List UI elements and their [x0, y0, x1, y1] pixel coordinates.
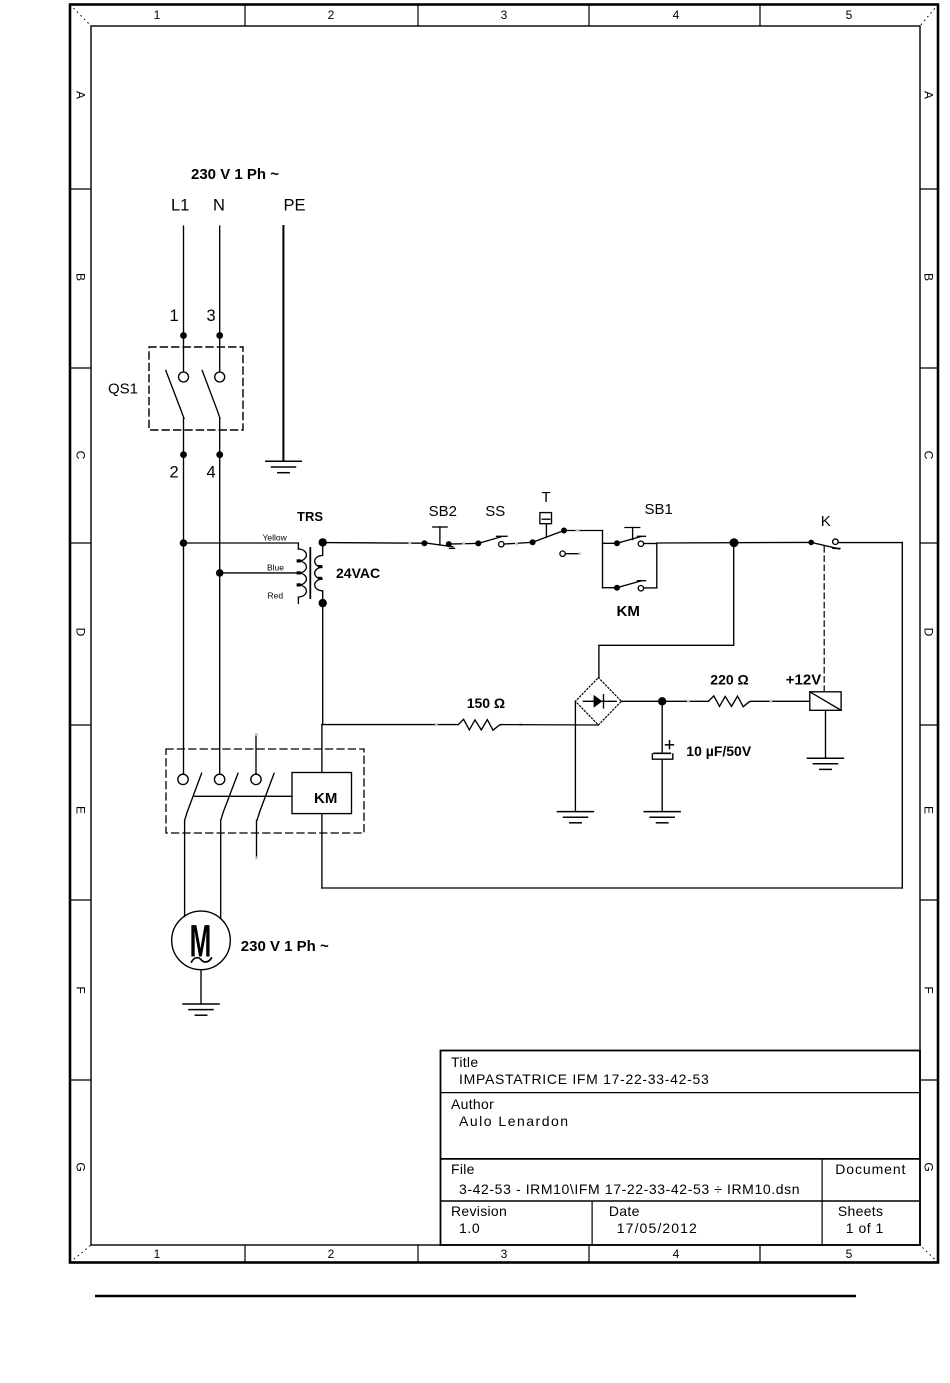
selector SS contact dot: [475, 540, 481, 546]
timer lower throw circle: [560, 551, 565, 556]
transformer TRS secondary tap marks: [318, 565, 322, 580]
terminal dot L1 pin1: [180, 332, 187, 339]
contact KM aux blade: [617, 581, 641, 588]
pin mark gray T output: [576, 529, 580, 532]
svg-text:TRS: TRS: [297, 509, 323, 524]
wire left drop to KM aux: [603, 587, 618, 589]
label Blue: [267, 563, 284, 573]
pushbutton SB1 actuator bar: [625, 527, 640, 529]
svg-text:150 Ω: 150 Ω: [467, 695, 505, 711]
pin number 2: [170, 463, 179, 481]
wire 150 ohm from junction: [322, 724, 458, 726]
junction dot secondary top: [319, 538, 327, 546]
drawing frame inner border: [91, 26, 920, 1245]
relay contact K circle: [833, 539, 839, 545]
wire K to right rail: [838, 542, 902, 544]
pin mark gray pole3 end: [255, 857, 258, 860]
contactor pole1 blade: [185, 773, 202, 820]
wire cap node down: [661, 701, 663, 753]
transformer TRS secondary winding: [315, 542, 323, 603]
dashed link K to coil: [823, 547, 825, 692]
transformer TRS label: [297, 509, 323, 524]
svg-text:Title: Title: [451, 1054, 478, 1070]
transformer TRS primary tap marks: [297, 559, 301, 586]
contactor pole3 stub: [255, 735, 257, 774]
node PE label: [284, 197, 306, 215]
svg-text:D: D: [922, 628, 936, 637]
svg-text:A: A: [74, 91, 88, 99]
frame column numbers top: [154, 8, 853, 22]
motor rating label: [241, 938, 329, 955]
frame column ticks bottom: [245, 1245, 760, 1263]
timer head inner bar: [542, 518, 550, 520]
wire PE feeder: [282, 226, 284, 461]
contactor coil KM label: [314, 790, 337, 807]
terminal dot L1 pin2: [180, 451, 187, 458]
wire L1 feeder upper: [183, 226, 185, 372]
timer lower throw stub: [565, 553, 578, 555]
motor M letter: [190, 915, 212, 967]
footer rule below frame: [95, 1295, 856, 1297]
svg-text:3: 3: [207, 307, 216, 325]
relay coil K diagonal: [810, 692, 841, 711]
wire rail to K contact: [657, 541, 811, 544]
relay contact K dot: [808, 540, 814, 546]
ground relay coil: [808, 758, 844, 769]
transformer TRS primary winding: [298, 549, 306, 604]
pin mark gray 150 ohm left: [435, 723, 438, 726]
svg-text:3: 3: [501, 1247, 508, 1261]
relay contact K label: [821, 513, 831, 530]
frame row ticks right: [920, 189, 938, 1080]
motor M circle: [172, 911, 231, 970]
relay coil label +12V: [786, 672, 821, 689]
pushbutton SB1 blade tip tick: [638, 535, 646, 537]
wire left drop to SB1: [603, 542, 618, 544]
pin number 3: [207, 307, 216, 325]
terminal dot N pin4: [216, 451, 223, 458]
wire relay coil to ground: [825, 710, 827, 758]
svg-text:220 Ω: 220 Ω: [710, 672, 748, 688]
svg-text:T: T: [542, 489, 551, 506]
svg-text:B: B: [922, 273, 936, 281]
resistor 150 ohm: [458, 719, 500, 730]
svg-text:4: 4: [673, 1247, 680, 1261]
label Red: [268, 591, 284, 601]
svg-text:Sheets: Sheets: [838, 1203, 883, 1219]
svg-text:17/05/2012: 17/05/2012: [617, 1220, 698, 1236]
timer contact common dot: [530, 539, 536, 545]
svg-text:Yellow: Yellow: [263, 533, 288, 543]
relay coil K box: [810, 692, 841, 711]
wire blue primary tap: [220, 572, 301, 574]
pushbutton SB1 contact dot: [614, 540, 620, 546]
svg-text:1 of 1: 1 of 1: [846, 1220, 884, 1236]
TITLE BLOCK: [441, 1051, 921, 1246]
resistor 220 ohm value: [710, 672, 748, 688]
svg-text:File: File: [451, 1161, 475, 1177]
frame column numbers bottom: [154, 1247, 853, 1261]
svg-text:N: N: [213, 197, 225, 215]
wire bridge feed drop: [599, 543, 734, 678]
svg-text:C: C: [74, 451, 88, 460]
wire bridge plus output: [621, 700, 708, 702]
pushbutton SB1 label: [645, 501, 673, 518]
contactor pole3 circle: [251, 774, 261, 784]
pin mark gray between SB2 SS: [462, 542, 465, 545]
selector SS label: [485, 503, 505, 520]
pushbutton SB2 actuator bar: [433, 526, 447, 528]
contact KM aux label: [617, 603, 640, 620]
svg-text:+12V: +12V: [786, 672, 821, 689]
svg-text:Revision: Revision: [451, 1203, 507, 1219]
wire KM coil to bottom rail: [321, 814, 323, 888]
svg-text:IMPASTATRICE IFM 17-22-33-42-5: IMPASTATRICE IFM 17-22-33-42-53: [459, 1071, 709, 1087]
svg-text:G: G: [74, 1162, 88, 1171]
frame column ticks top: [245, 5, 760, 27]
wire KM aux to right drop: [644, 587, 657, 589]
svg-text:1: 1: [154, 1247, 161, 1261]
contactor pole2 blade: [221, 773, 238, 820]
svg-text:SB1: SB1: [645, 501, 673, 518]
svg-text:1.0: 1.0: [459, 1220, 480, 1236]
pin number 4: [207, 463, 216, 481]
contactor linkage line: [195, 795, 293, 797]
wire yellow primary lead: [184, 543, 299, 549]
svg-text:L1: L1: [171, 197, 189, 215]
timer head box T: [540, 513, 552, 524]
svg-text:2: 2: [328, 1247, 335, 1261]
pushbutton SB2 contact dot right: [446, 541, 452, 547]
title block divider under file: [441, 1200, 921, 1202]
pushbutton SB1 actuator stem: [632, 528, 634, 540]
ground bridge minus: [557, 812, 593, 823]
wire motor to ground: [200, 970, 202, 1004]
svg-text:D: D: [74, 628, 88, 637]
svg-text:F: F: [74, 986, 88, 993]
contactor pole3 blade: [257, 773, 274, 820]
wire KM coil feed: [321, 725, 323, 773]
svg-text:B: B: [74, 273, 88, 281]
capacitor 10uF cup plate: [652, 754, 672, 759]
wire secondary rail to SB2: [323, 542, 425, 545]
relay contact K blade tip tick: [833, 547, 840, 549]
frame row letters left: [74, 91, 88, 1172]
svg-text:Red: Red: [268, 591, 284, 601]
bridge diode cathode bar: [603, 695, 605, 708]
transformer TRS core: [309, 548, 311, 598]
title block divider under author: [441, 1158, 921, 1160]
wire cap to ground: [661, 759, 663, 811]
switch QS1 pole1 contact circle: [179, 372, 189, 382]
svg-text:E: E: [922, 806, 936, 814]
switch QS1 dashed outline: [149, 347, 243, 430]
wire SS to T: [504, 542, 533, 544]
terminal dot N pin3: [216, 332, 223, 339]
svg-text:4: 4: [673, 8, 680, 22]
pin mark gray 220 ohm right: [770, 700, 773, 703]
motor tilde: [192, 958, 212, 962]
ground capacitor: [644, 812, 680, 823]
svg-text:K: K: [821, 513, 831, 530]
label 24VAC: [336, 565, 380, 581]
svg-text:E: E: [74, 806, 88, 814]
ground PE: [266, 461, 302, 472]
junction dot L1 rail: [180, 539, 188, 547]
relay contact K blade: [811, 542, 839, 549]
wire right rail down: [901, 543, 903, 888]
junction dot bridge feed: [730, 538, 739, 547]
capacitor 10uF top plate: [654, 752, 670, 754]
svg-text:KM: KM: [617, 603, 640, 620]
contactor pole1 circle: [178, 774, 188, 784]
frame row letters right: [922, 91, 936, 1172]
wire L1 feeder lower: [183, 543, 185, 774]
pushbutton SB1 blade: [617, 537, 641, 544]
svg-text:10 µF/50V: 10 µF/50V: [686, 743, 752, 759]
svg-text:G: G: [922, 1162, 936, 1171]
svg-text:1: 1: [154, 8, 161, 22]
label Yellow: [263, 533, 288, 543]
title block divider date column: [591, 1201, 593, 1245]
wire N feeder lower: [219, 573, 221, 774]
junction dot cap node: [658, 697, 666, 705]
contactor coil KM box: [292, 773, 352, 814]
wire 220 ohm to relay coil: [751, 700, 810, 702]
pushbutton SB1 contact circle: [638, 541, 643, 546]
contact KM aux blade tip tick: [638, 580, 646, 582]
switch QS1 label: [108, 381, 138, 398]
svg-text:Date: Date: [609, 1203, 640, 1219]
pin mark gray left of SB2: [408, 542, 411, 545]
contactor pole2 circle: [214, 774, 224, 784]
wire L1 below QS1: [183, 418, 185, 543]
node N label: [213, 197, 225, 215]
svg-text:F: F: [922, 986, 936, 993]
wire T output to parallel block: [564, 530, 603, 532]
pushbutton SB2 blade tip tick: [450, 547, 455, 549]
svg-text:Aulo Lenardon: Aulo Lenardon: [459, 1113, 570, 1129]
svg-text:5: 5: [846, 8, 853, 22]
switch QS1 pole2 contact circle: [215, 372, 225, 382]
switch QS1 pole1 blade: [166, 371, 184, 419]
ground motor: [183, 1004, 219, 1015]
pushbutton SB2 label: [429, 503, 457, 520]
capacitor 10uF value: [686, 743, 752, 759]
selector SS contact circle: [499, 542, 504, 547]
contactor KM dashed outline: [166, 749, 364, 833]
svg-text:Blue: Blue: [267, 563, 284, 573]
timer contact T label: [542, 489, 551, 506]
wire N below QS1: [219, 418, 221, 573]
wire pole2 to motor: [220, 820, 222, 918]
resistor 150 ohm value: [467, 695, 505, 711]
svg-text:5: 5: [846, 1247, 853, 1261]
pushbutton SB2 contact dot left: [421, 540, 427, 546]
svg-text:3: 3: [501, 8, 508, 22]
pin number 1: [170, 307, 179, 325]
contact KM aux dot: [614, 585, 620, 591]
wire SB1 to right drop: [644, 543, 657, 545]
svg-text:A: A: [922, 91, 936, 99]
wire N feeder upper: [219, 226, 221, 372]
contactor pole3 lower stub: [256, 820, 258, 857]
wire secondary bottom drop: [322, 603, 324, 725]
svg-text:2: 2: [170, 463, 179, 481]
node L1 label: [171, 197, 189, 215]
svg-text:SS: SS: [485, 503, 505, 520]
title block outline: [441, 1051, 921, 1246]
bridge diode line: [583, 700, 616, 702]
pin mark gray end of stub: [579, 552, 582, 555]
svg-text:QS1: QS1: [108, 381, 138, 398]
svg-text:Document: Document: [835, 1161, 906, 1177]
contact KM aux circle: [638, 586, 643, 591]
timer head stem: [545, 524, 547, 538]
pin mark gray resistor left: [687, 700, 690, 703]
svg-text:1: 1: [170, 307, 179, 325]
bridge diode triangle: [594, 695, 603, 708]
pin mark gray between SS T: [515, 543, 518, 546]
resistor 220 ohm: [708, 696, 750, 707]
frame row ticks left: [70, 189, 91, 1080]
junction dot secondary bottom: [319, 599, 327, 607]
selector SS blade: [478, 537, 501, 544]
wire parallel block right drop: [656, 544, 658, 588]
wire bottom return rail: [322, 887, 902, 889]
selector SS blade tip tick: [497, 535, 508, 537]
svg-text:230 V 1 Ph ~: 230 V 1 Ph ~: [191, 166, 279, 183]
svg-text:24VAC: 24VAC: [336, 565, 380, 581]
wire 150 ohm to bridge: [500, 724, 598, 726]
svg-text:KM: KM: [314, 790, 337, 807]
capacitor 10uF plus sign: [666, 741, 674, 749]
wire pole1 to motor: [184, 820, 186, 916]
pin mark gray pole3 top: [255, 733, 258, 736]
supply label 230 V 1 Ph ~: [191, 166, 279, 183]
svg-text:C: C: [922, 451, 936, 460]
svg-text:3-42-53 - IRM10\IFM 17-22-33-4: 3-42-53 - IRM10\IFM 17-22-33-42-53 ÷ IRM…: [459, 1181, 800, 1197]
svg-text:Author: Author: [451, 1096, 494, 1112]
wire bridge minus to ground: [574, 701, 576, 811]
svg-text:230 V 1 Ph ~: 230 V 1 Ph ~: [241, 938, 329, 955]
title block divider document column: [821, 1159, 823, 1245]
junction dot N blue tap: [216, 569, 224, 577]
svg-text:2: 2: [328, 8, 335, 22]
pushbutton SB2 blade: [424, 543, 453, 547]
title block divider under title: [441, 1092, 921, 1094]
svg-text:SB2: SB2: [429, 503, 457, 520]
pushbutton SB2 actuator stem: [439, 527, 441, 545]
svg-text:PE: PE: [284, 197, 306, 215]
wire parallel block left drop: [602, 531, 604, 588]
timer contact throw dot: [561, 528, 567, 534]
wire SB2 to SS: [449, 542, 479, 545]
bridge rectifier dotted diamond: [575, 678, 621, 725]
timer contact blade: [533, 531, 564, 543]
pin mark gray 150 ohm right: [520, 723, 523, 726]
switch QS1 pole2 blade: [202, 371, 220, 419]
svg-text:4: 4: [207, 463, 216, 481]
